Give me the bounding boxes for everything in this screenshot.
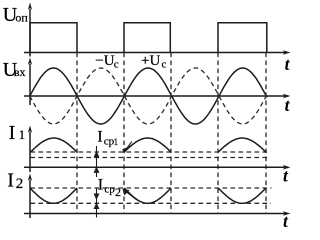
svg-text:−U: −U <box>95 53 114 69</box>
voltage axis U_vx (plot 2) <box>28 58 32 106</box>
svg-text:вх: вх <box>14 65 26 79</box>
time axis t (plot 4) <box>24 211 291 216</box>
svg-text:2: 2 <box>115 185 121 199</box>
svg-text:I: I <box>97 128 102 145</box>
time axis t (plot 3) <box>24 165 291 170</box>
current axis I2 (plot 4) <box>28 174 32 219</box>
svg-text:1: 1 <box>19 127 26 142</box>
label +U_c <box>141 53 167 71</box>
svg-text:2: 2 <box>16 176 24 192</box>
svg-text:I: I <box>98 177 103 194</box>
label I_cp2 <box>98 177 121 200</box>
dimension arrow I_cp2 level <box>94 189 98 218</box>
time axis t (plot 2) <box>24 94 291 99</box>
dashed level line (pulse base, plot 3) <box>31 151 270 153</box>
svg-text:I: I <box>7 169 14 191</box>
svg-text:оп: оп <box>15 11 28 25</box>
current pulses I2 (inverted half-sine humps) <box>30 188 266 203</box>
sine wave +U_c (solid input signal) <box>30 68 267 124</box>
label U_vx <box>3 59 26 81</box>
square-wave reference voltage U_op <box>30 23 267 53</box>
time axis t (plot 1) <box>24 50 291 55</box>
leader arrow to I_cp2 level <box>123 190 137 201</box>
label U_op <box>3 4 29 26</box>
vertical timing grid (dashed) at half-period boundaries <box>77 53 266 214</box>
sine wave -U_c (dashed, opposite phase) <box>30 68 266 124</box>
current pulses I1 (half-sine humps) <box>31 138 267 152</box>
svg-text:+U: +U <box>141 53 160 69</box>
voltage axis U_op (plot 1) <box>28 3 32 57</box>
current axis I1 (plot 3) <box>28 126 32 173</box>
dimension arrow I_cp1 level <box>94 146 98 177</box>
svg-text:ср: ср <box>104 183 115 195</box>
label I_cp1 <box>97 128 118 147</box>
dashed average level I_cp1 <box>31 157 270 159</box>
svg-text:с: с <box>114 59 119 71</box>
leader arrow to I_cp1 level <box>123 141 132 152</box>
label -U_c <box>95 53 119 71</box>
dashed level line (pulse base, plot 4) <box>31 187 272 189</box>
dashed average level I_cp2 <box>31 202 272 204</box>
svg-text:I: I <box>9 122 16 144</box>
svg-text:1: 1 <box>114 137 119 147</box>
label I1 <box>9 122 26 144</box>
label I2 <box>7 169 23 192</box>
svg-text:с: с <box>162 59 167 71</box>
